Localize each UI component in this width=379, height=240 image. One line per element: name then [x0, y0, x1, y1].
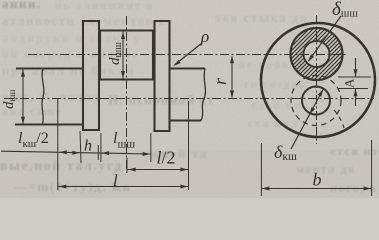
- crankpin section hatching: [238, 6, 379, 80]
- main journal circle: [302, 87, 330, 115]
- crank web outline (big circle): [261, 23, 375, 137]
- extension line web1 left: [80, 131, 81, 163]
- extension line web1 right: [97, 145, 99, 160]
- extension line crank mid: [126, 158, 128, 173]
- extension line crankpin right: [150, 133, 152, 162]
- extension line crankpin left: [100, 133, 102, 162]
- dimension b: [260, 143, 262, 196]
- dimension l: [58, 186, 188, 188]
- dimension A (overlap): [338, 76, 371, 78]
- break line right shaft: [201, 69, 205, 121]
- wire: crank vertical centerline: [126, 16, 128, 173]
- dimension chain l_кш/2, h, l_шш: [1, 151, 151, 154]
- wire: end-view vertical centerline: [316, 15, 318, 144]
- wire: main journal axis centerline: [4, 98, 374, 100]
- crank web 2: [155, 21, 170, 131]
- break line left shaft: [42, 69, 44, 125]
- dimension r crank radius: [231, 57, 233, 98]
- crankpin oil hole circle: [304, 41, 330, 67]
- crankpin journal: [100, 31, 153, 80]
- extra dashed arc fragment: [334, 110, 344, 128]
- extension line right journal mid: [188, 101, 190, 190]
- left main journal shaft: [15, 69, 82, 125]
- dimension d_кш: [22, 70, 24, 125]
- crankpin outer circle: [291, 28, 343, 80]
- extension line journal mid: [57, 99, 59, 190]
- dimension l/2: [128, 169, 188, 171]
- main journal hidden outline (dashed): [291, 76, 341, 126]
- wire: crankpin axis centerline: [28, 54, 346, 56]
- right main journal shaft: [171, 69, 206, 121]
- crank web 1: [83, 21, 99, 130]
- dimension d_шш: [122, 32, 124, 79]
